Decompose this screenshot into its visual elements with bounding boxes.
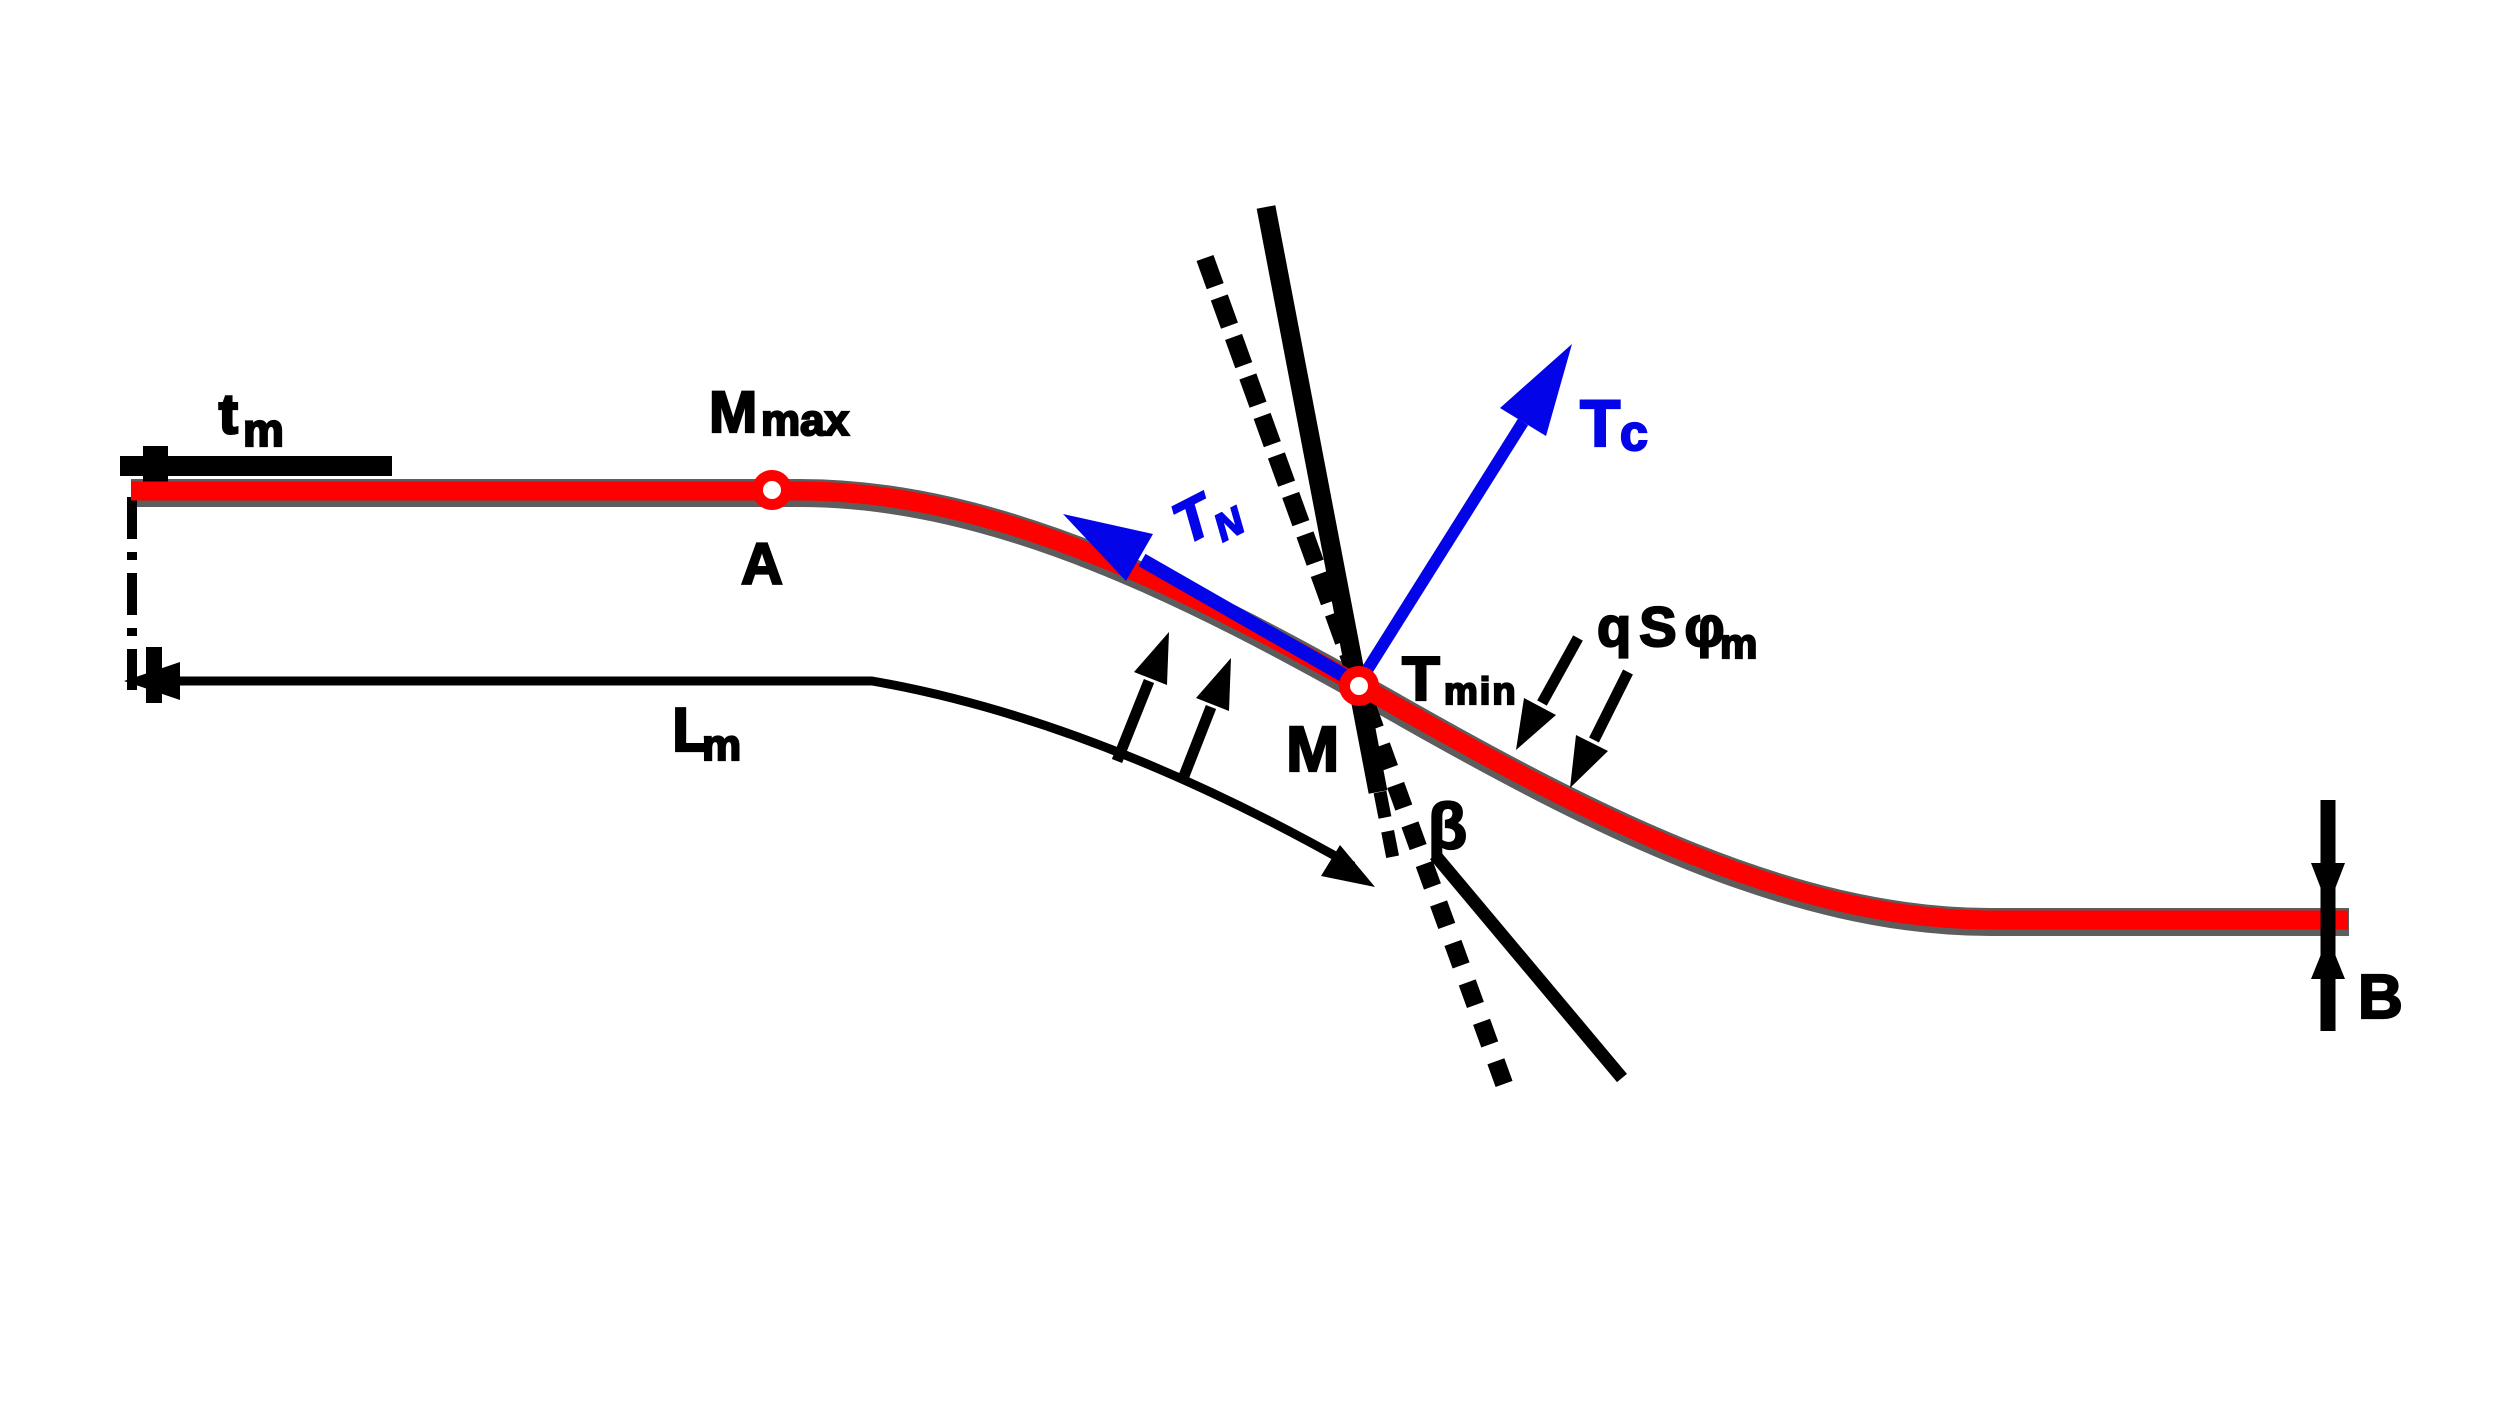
svg-text:m: m [243,404,284,456]
svg-text:min: min [1444,671,1518,713]
svg-text:c: c [1620,405,1648,461]
svg-text:A: A [741,532,783,597]
svg-text:qSφ: qSφ [1597,595,1733,658]
svg-text:B: B [2358,963,2403,1032]
svg-text:T: T [1402,645,1440,714]
svg-text:t: t [219,382,238,445]
svg-text:m: m [702,721,741,770]
svg-text:M: M [1286,713,1339,785]
svg-text:T: T [1580,386,1620,460]
svg-text:M: M [709,380,757,445]
svg-text:β: β [1428,790,1467,862]
svg-text:m: m [1720,620,1757,667]
svg-text:max: max [761,396,850,445]
